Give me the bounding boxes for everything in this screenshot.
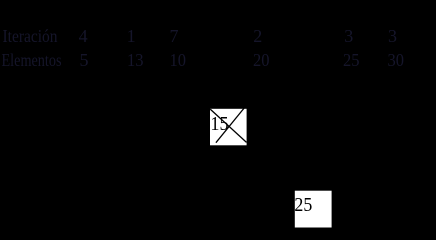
svg-text:25: 25 — [294, 195, 312, 216]
svg-text:20: 20 — [253, 50, 270, 70]
svg-text:7: 7 — [170, 26, 179, 46]
inserted cell box (white) — [295, 191, 332, 228]
svg-text:30: 30 — [388, 50, 405, 70]
svg-text:5: 5 — [80, 50, 89, 70]
svg-text:3: 3 — [344, 26, 353, 46]
svg-text:4: 4 — [79, 26, 88, 46]
svg-text:2: 2 — [253, 26, 262, 46]
svg-text:Elementos: Elementos — [2, 50, 62, 70]
svg-text:Iteración: Iteración — [3, 26, 58, 46]
X cross line (top-left to bottom-right) — [210, 109, 246, 142]
svg-text:1: 1 — [127, 26, 136, 46]
svg-text:3: 3 — [388, 26, 397, 46]
svg-text:25: 25 — [343, 50, 360, 70]
svg-text:10: 10 — [170, 50, 187, 70]
rejected cell box (white) — [210, 109, 247, 146]
svg-text:13: 13 — [127, 50, 144, 70]
X cross line (bottom-left to top-right, exits top edge) — [216, 107, 245, 143]
